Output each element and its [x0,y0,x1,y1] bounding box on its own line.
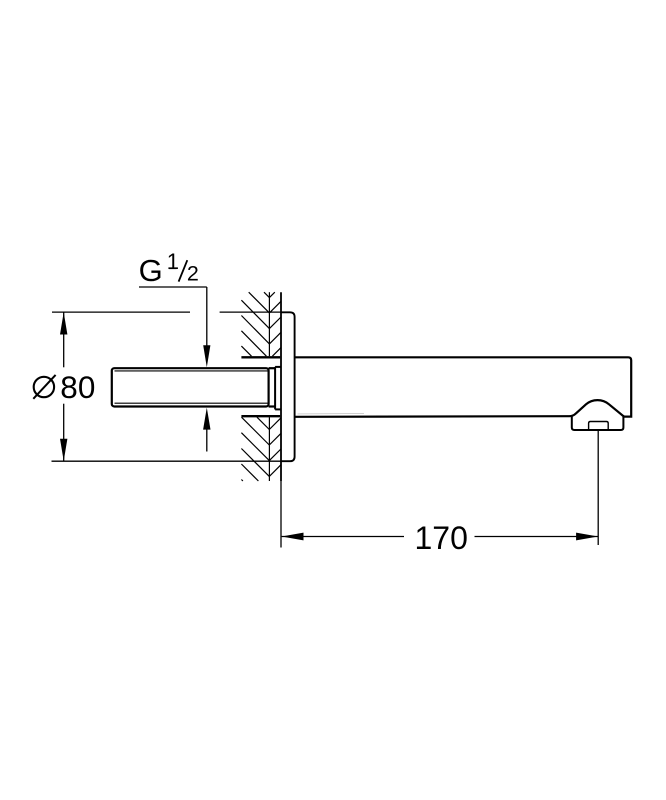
wall hatching: long diagonals (lower block) [241,417,269,481]
170 dimension right extension (from outlet) [597,431,599,546]
pipe neck between thread end and collar [269,368,276,406]
dia-80 arrow up [60,312,67,334]
170 dimension left extension (wall face extended) [280,481,282,547]
plaster boundary line [268,292,270,481]
mounting collar at wall [275,367,281,410]
escutcheon plate [281,312,295,461]
svg-text:80: 80 [60,369,95,405]
dia symbol [33,375,55,399]
aerator housing [572,416,624,430]
wall hole top edge [241,356,280,358]
svg-text:170: 170 [415,520,468,556]
wall hatching: short plaster ticks (upper block) [269,292,281,356]
dia-80 bottom extension line [52,460,282,462]
G1/2 leader line [139,287,207,348]
wall face line [280,292,282,481]
foot serif of superscript 1 [169,268,177,270]
170 dimension line [282,536,598,538]
mousseur outlet [589,422,609,431]
svg-text:G: G [139,253,163,288]
foot serif of digit 1 in 170 [417,547,429,549]
svg-text:2: 2 [187,261,199,285]
wall hatching: short plaster ticks (lower block) [269,418,281,477]
170 arrow right [576,533,598,541]
svg-text:1: 1 [167,249,179,274]
fraction slash [179,260,188,281]
dia-80 top extension line [52,311,281,313]
G1/2 arrow up to pipe bottom [203,408,210,430]
spout bore tangent edge (faint) [298,412,365,415]
170 arrow left [282,533,304,541]
dia-80 arrow down [60,439,67,461]
spout body outline [295,357,631,417]
wall hatching: long diagonals (upper block) [241,292,269,356]
lower arrow tail [206,429,208,452]
thread root line top [115,370,269,372]
G1/2 arrow down to pipe top [203,345,210,367]
dia-80 dimension line [63,312,65,461]
wall hole bottom edge [241,415,280,417]
thread root line bottom [115,402,269,404]
threaded inlet pipe G1/2 [112,368,269,406]
